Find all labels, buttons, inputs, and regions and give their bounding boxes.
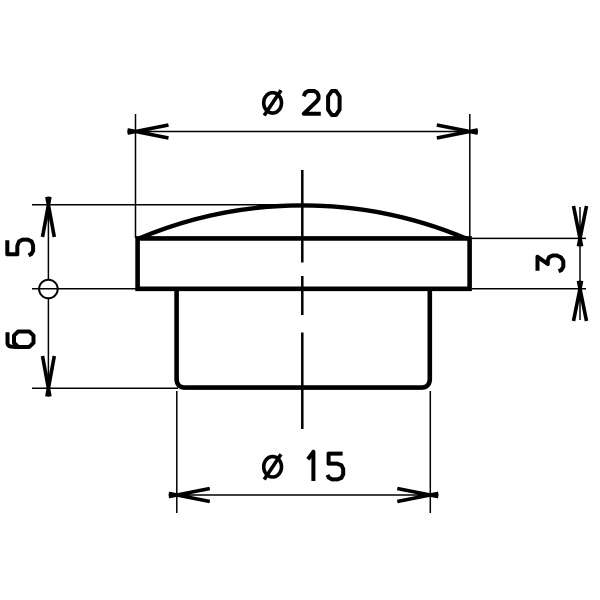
arrowhead 6 down (43, 356, 55, 397)
extension line phi15 left (176, 391, 178, 513)
part outline: stem with rounded bottom (177, 289, 430, 388)
part outline: flange rectangle (135, 236, 471, 291)
extension line phi20 left (135, 114, 137, 238)
label phi symbol of phi20 (264, 90, 282, 115)
extension line stem bottom level (dim 6) (32, 387, 178, 389)
centerline vertical axis (301, 170, 304, 429)
arrowhead phi20 left (128, 125, 169, 138)
label digit 5 of phi15 (328, 454, 344, 480)
extension line phi15 right (429, 391, 431, 513)
part outline: dome arc (138, 205, 467, 238)
extension line origin level (32, 288, 140, 290)
arrowhead phi15 left (169, 489, 210, 502)
dimension line phi15 (177, 494, 430, 496)
extension line apex level (dim 5) (32, 204, 312, 206)
label digit 2 of phi20 (304, 91, 321, 114)
arrowhead 3 top (pointing down) (574, 206, 587, 246)
arrowhead 5 up (43, 197, 55, 237)
extension line phi20 right (469, 114, 471, 238)
origin circle (39, 280, 58, 299)
extension line dim3 top (472, 237, 586, 239)
arrowhead phi20 right (437, 125, 478, 138)
dimension line 3 vertical (579, 207, 581, 320)
dimension line 6 vertical (47, 298, 49, 390)
label digit 1 of phi15 (308, 452, 314, 481)
label digit 6 left dimension (rotated) (8, 331, 34, 347)
dimension line phi20 (136, 131, 470, 133)
dimension line 5 vertical (47, 197, 49, 280)
label digit 5 left dimension (rotated) (7, 240, 33, 256)
extension line dim3 bottom (472, 288, 586, 290)
label phi symbol of phi15 (264, 454, 282, 479)
label digit 0 of phi20 (328, 91, 340, 115)
label digit 3 right dimension (rotated) (538, 256, 564, 272)
arrowhead phi15 right (397, 489, 438, 502)
arrowhead 3 bottom (pointing up) (574, 281, 587, 321)
